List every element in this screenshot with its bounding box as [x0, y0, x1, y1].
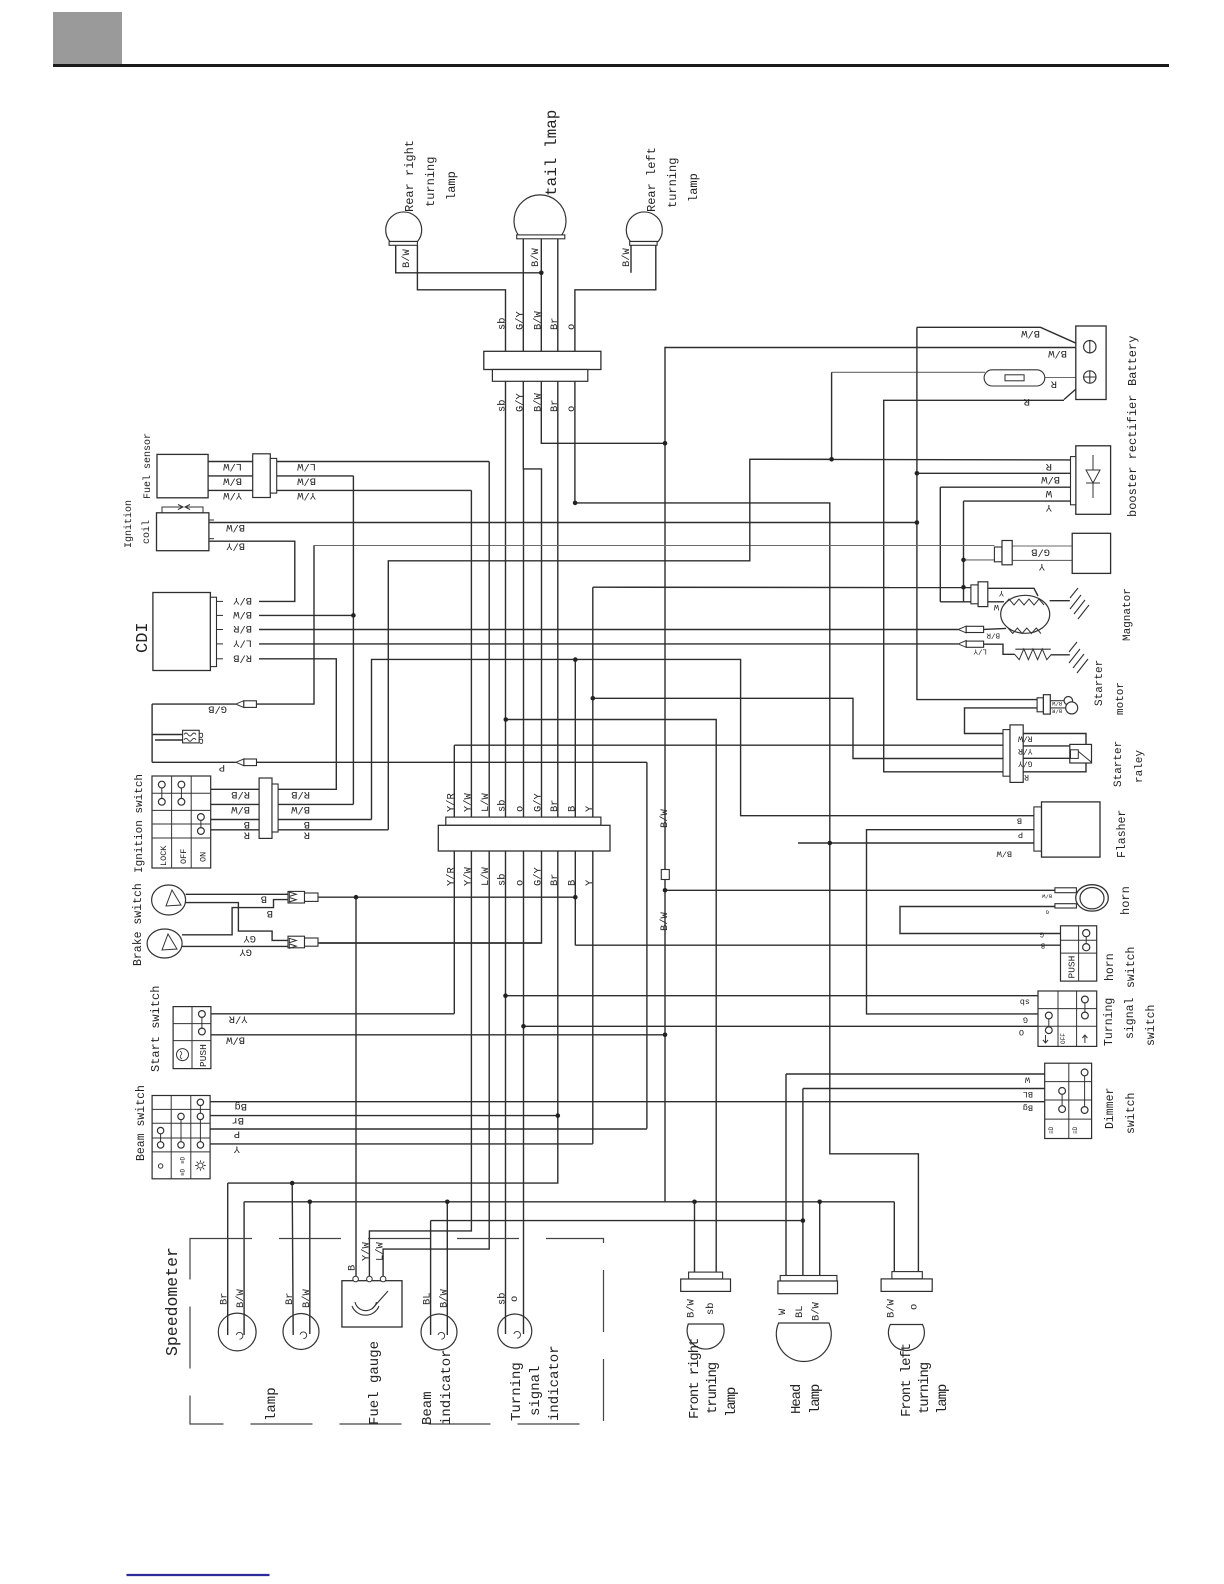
svg-text:lamp: lamp [724, 1387, 740, 1417]
junction B/W start [663, 1033, 668, 1038]
wire B/W long riser to starter motor [917, 327, 1037, 699]
wire G/Y relay [593, 698, 1003, 758]
junction B/W head lamp [817, 1200, 822, 1205]
fuel gauge box [342, 1281, 402, 1327]
wire B/W front right [694, 1202, 696, 1272]
dimmer link c1 [1061, 1094, 1063, 1105]
svg-text:coil: coil [141, 520, 153, 544]
svg-text:indicator: indicator [439, 1349, 455, 1425]
svg-text:G/B: G/B [1031, 546, 1050, 558]
CDI pin tick B/Y [217, 600, 224, 602]
starter relay coil [1071, 750, 1079, 759]
wire B/W horn [665, 889, 1056, 891]
ignition links [162, 788, 201, 828]
wire R/W relay to starter motor [965, 708, 1038, 734]
svg-text:Y/W: Y/W [462, 793, 474, 812]
svg-text:sb: sb [497, 1293, 509, 1305]
wire G/B to box [1012, 545, 1072, 547]
beam symbol sun circle [198, 1163, 203, 1168]
CDI pin tick L/Y [217, 643, 224, 645]
starter motor leads [1050, 701, 1065, 708]
starter motor body circle [1066, 702, 1078, 714]
svg-text:raley: raley [1134, 750, 1146, 783]
svg-text:R: R [1024, 395, 1030, 407]
svg-text:B/W: B/W [226, 1033, 245, 1045]
beam indicator lamp [421, 1314, 457, 1350]
turn switch contact r3c1 [1045, 1027, 1052, 1034]
starter relay connector big [1010, 725, 1023, 783]
svg-text:LOCK: LOCK [159, 845, 169, 866]
bullet B/R body [966, 626, 983, 632]
svg-text:Y: Y [999, 588, 1004, 598]
svg-text:G: G [1040, 930, 1044, 938]
bullet brake2 body [288, 936, 305, 948]
front left lamp top bar [892, 1272, 922, 1279]
beam contact r4c1 [157, 1142, 163, 1148]
svg-text:turning: turning [917, 1362, 933, 1414]
junction B/W lamp 2 [308, 1200, 313, 1205]
junction R fuse riser [829, 457, 834, 462]
rectifier diode symbol [1086, 455, 1100, 498]
svg-text:o: o [509, 1296, 521, 1302]
svg-text:B/W: B/W [532, 393, 544, 412]
wire R ignition right [278, 829, 388, 831]
svg-text:Y/W: Y/W [297, 489, 316, 501]
wire B fuel gauge riser [355, 897, 357, 1281]
svg-text:B: B [267, 907, 273, 919]
svg-text:Br: Br [549, 400, 561, 412]
junction G/Y relay on Y bus [591, 696, 596, 701]
wire R/B ignition [211, 788, 259, 790]
svg-text:Beam: Beam [420, 1391, 436, 1425]
svg-text:Fuel sensor: Fuel sensor [142, 433, 154, 499]
wire R relay right [1023, 763, 1086, 772]
svg-text:G/Y: G/Y [514, 393, 526, 412]
bullet brake2 arrows [289, 938, 296, 948]
wire tail Br down [557, 239, 559, 351]
svg-text:≡D: ≡D [180, 1168, 187, 1176]
svg-text:B/W: B/W [659, 809, 671, 828]
junction o branch [573, 501, 578, 506]
wire rear-left B/W [630, 245, 632, 272]
ground magnator [1070, 588, 1089, 619]
wire P left [152, 761, 236, 763]
junction o turning [521, 1024, 526, 1029]
svg-text:Brake switch: Brake switch [132, 883, 145, 966]
brake switch triangle 2 [162, 934, 177, 950]
beam symbol sun rays [195, 1160, 206, 1171]
svg-text:Bg: Bg [1023, 1102, 1033, 1112]
magnator coil zigzag bottom [1008, 628, 1041, 634]
magnator connector big [978, 582, 988, 607]
dimmer contact r3c2 [1081, 1107, 1088, 1114]
svg-text:W: W [993, 602, 999, 612]
rear left turning lamp bulb [626, 212, 662, 242]
svg-text:R/B: R/B [291, 788, 310, 800]
flasher box [1042, 802, 1101, 857]
junction Y magnator [961, 585, 966, 590]
wire L/W bus [383, 462, 489, 1282]
head lamp bulb [776, 1323, 831, 1362]
bullet G/B body [244, 701, 257, 708]
svg-text:OFF: OFF [179, 849, 189, 864]
bullet L/Y arrow [958, 641, 966, 648]
svg-text:lamp: lamp [687, 173, 701, 202]
svg-text:B/R: B/R [1051, 708, 1062, 715]
wire L/W fuel sensor [208, 461, 489, 463]
svg-text:o: o [566, 406, 578, 412]
CDI box [153, 593, 211, 671]
svg-text:B: B [261, 893, 267, 905]
header rule [53, 64, 1169, 67]
central connector top bar [446, 817, 601, 825]
svg-text:Dimmer: Dimmer [1104, 1088, 1117, 1129]
wire Y/R bus [453, 745, 455, 1014]
wire B/W flasher [798, 842, 1034, 844]
tail lamp base [517, 235, 565, 239]
wire B/W battery vertical x665 [664, 347, 666, 1202]
wire magnator pin2 W feed [940, 601, 971, 603]
CDI pin tick B/W [217, 614, 224, 616]
svg-text:BL: BL [1023, 1089, 1033, 1099]
speedometer lamp 2 filament [300, 1332, 307, 1339]
bullet G/B arrow [236, 701, 244, 708]
wire Br lamp 1 [227, 1183, 229, 1335]
battery terminal 1 bar [1089, 341, 1091, 353]
svg-text:horn: horn [1119, 886, 1133, 915]
wire BL riser to headlamp [802, 1089, 804, 1276]
turn switch link c3 [1084, 1003, 1086, 1012]
svg-text:indicator: indicator [547, 1345, 563, 1421]
svg-text:Y/R: Y/R [229, 1012, 248, 1024]
svg-text:o: o [515, 806, 527, 812]
wire brake2 top jog [182, 900, 288, 935]
bullet brake2 tip [305, 938, 319, 946]
start switch dividers [173, 1007, 211, 1069]
svg-text:o: o [908, 1304, 920, 1310]
coil B/W pin tick [209, 519, 214, 521]
wire B horn switch [575, 944, 1060, 946]
junction flasher B/W on o-line [828, 841, 833, 846]
svg-text:B/W: B/W [401, 249, 413, 268]
bullet L/Y body [966, 641, 983, 647]
fuse body [984, 370, 1045, 386]
svg-text:Y/W: Y/W [462, 867, 474, 886]
dimmer contact r3c1 [1059, 1106, 1066, 1113]
svg-text:Beam switch: Beam switch [135, 1085, 148, 1161]
svg-text:GY: GY [243, 932, 256, 944]
wire B/R to coil [984, 628, 1007, 629]
noise filter wire 2 [155, 739, 183, 741]
CDI pin tick B/R [217, 629, 224, 631]
wire W dimmer [786, 1073, 1045, 1075]
junction Br lamp 2 [290, 1181, 295, 1186]
starter motor brush circle [1064, 697, 1072, 705]
footer blue rule [127, 1574, 270, 1576]
wire Y beam [210, 1143, 593, 1145]
wire R battery diagonal down [1064, 382, 1084, 400]
wire G/Y jog and bus [320, 381, 542, 943]
svg-text:Y: Y [1045, 501, 1052, 513]
start kick squiggle [180, 1051, 182, 1059]
ignition connector tall [259, 778, 272, 838]
ignition coil box [157, 513, 209, 551]
wire B/W front left [893, 1202, 895, 1272]
svg-text:W: W [777, 1308, 789, 1315]
junction B/W lamps [539, 271, 544, 276]
svg-text:Y/R: Y/R [1018, 746, 1033, 755]
svg-text:B/W: B/W [1048, 347, 1067, 359]
svg-text:turning: turning [666, 158, 680, 208]
wire B/W head lamp [819, 1202, 821, 1276]
junction B/W horn [663, 888, 668, 893]
turning signal indicator lamp [498, 1314, 532, 1348]
horn switch dividers [1061, 926, 1097, 981]
svg-text:Y: Y [584, 805, 596, 812]
wire BL beam indicator line [431, 1220, 803, 1222]
svg-text:horn: horn [1104, 953, 1117, 981]
svg-text:P: P [219, 761, 225, 773]
svg-text:R/W: R/W [1018, 734, 1033, 743]
svg-text:B/W: B/W [223, 474, 242, 486]
svg-text:L/W: L/W [480, 793, 492, 812]
noise filter squiggle 1 [184, 733, 196, 736]
bullet brake1 body [288, 891, 305, 903]
bullet brake1 tip [305, 893, 319, 901]
horn switch contact 1 [1083, 930, 1090, 937]
svg-text:sb: sb [1020, 997, 1030, 1007]
front right lamp top bar [689, 1272, 723, 1279]
svg-text:Rear left: Rear left [645, 147, 659, 212]
battery box [1076, 326, 1106, 400]
svg-text:Bg: Bg [235, 1100, 247, 1112]
turning signal indicator lamp filament [514, 1331, 521, 1338]
horn inner ring [1080, 888, 1104, 909]
ground pickup [1069, 642, 1088, 673]
beam contact r4c2 [178, 1142, 184, 1148]
wire Y/R start [211, 1013, 454, 1015]
wire Y/W bus [369, 490, 471, 1281]
svg-text:B/W: B/W [1041, 473, 1060, 485]
horn switch link [1085, 937, 1087, 944]
fuse element [1005, 375, 1024, 381]
wire Br lamp 2 [292, 1183, 293, 1335]
dimmer contact r1c2 [1081, 1069, 1088, 1076]
svg-text:B/W: B/W [530, 248, 542, 267]
svg-text:Y/W: Y/W [223, 489, 242, 501]
wire Y rectifier [964, 500, 1071, 502]
svg-text:B/R: B/R [233, 622, 252, 634]
svg-text:≡D: ≡D [1072, 1126, 1079, 1134]
turn switch right arrow [1082, 1035, 1087, 1043]
turn switch contact r2c3 [1082, 1012, 1089, 1019]
wire R fuse left riser [831, 372, 833, 459]
front right lamp bulb [687, 1324, 724, 1349]
start switch grid [173, 1007, 211, 1069]
wire B/W ignition [211, 803, 259, 805]
wire R to starter relay [884, 400, 1064, 772]
svg-text:switch: switch [1145, 1005, 1158, 1046]
wire G/B long [314, 545, 994, 547]
svg-text:lamp: lamp [935, 1384, 951, 1414]
svg-text:G/Y: G/Y [1018, 759, 1033, 768]
svg-text:Y/R: Y/R [445, 867, 457, 886]
wire BL beam indicator drop [430, 1221, 432, 1335]
svg-text:B/W: B/W [226, 521, 245, 533]
starter relay connector small [1003, 730, 1010, 777]
svg-text:R: R [244, 828, 250, 840]
junction B/W front right [692, 1200, 697, 1205]
svg-text:B/W: B/W [532, 311, 544, 330]
svg-text:Turning: Turning [1103, 998, 1116, 1046]
bullet brake1 arrows [289, 892, 296, 902]
wire B ignition to flasher [372, 659, 1034, 819]
head lamp connector bar [778, 1281, 838, 1294]
beam switch dividers [152, 1096, 210, 1179]
wire Bg beam to dimmer [210, 1101, 1045, 1103]
ignition contact b2 [178, 798, 185, 805]
junction coil B/W riser [915, 520, 920, 525]
wire B/W ignition coil [209, 522, 917, 524]
wire R fuse to battery [1044, 377, 1083, 379]
head lamp top bar [780, 1276, 837, 1282]
wire P flasher to turn switch [867, 830, 1039, 1014]
brake switch triangle 1 [166, 890, 181, 906]
turn switch dividers [1038, 991, 1097, 1046]
beam contact r4c3 [197, 1142, 203, 1148]
svg-text:B/W: B/W [301, 1289, 313, 1308]
svg-text:GY: GY [239, 946, 252, 958]
wire sb bus [505, 381, 507, 1334]
svg-text:B/W: B/W [1041, 893, 1052, 900]
dimmer switch grid [1045, 1063, 1092, 1138]
svg-text:L/Y: L/Y [973, 647, 987, 655]
wire tail B/W down + branch to battery line [541, 239, 665, 443]
CDI pin tick R/B [217, 658, 224, 660]
svg-text:B/W: B/W [621, 248, 633, 267]
fuel gauge dial arc [352, 1302, 379, 1315]
svg-text:sb: sb [497, 400, 509, 412]
magnator coil zigzag top [1004, 599, 1044, 605]
wire brake2 lower GY [182, 945, 289, 947]
ignition switch dividers [152, 776, 211, 868]
svg-text:Front left: Front left [899, 1344, 915, 1417]
svg-text:B/W: B/W [231, 803, 250, 815]
svg-text:B/Y: B/Y [233, 594, 252, 606]
svg-text:Y/R: Y/R [445, 793, 457, 812]
brake switch circle 1 [152, 885, 186, 915]
wire pickup to ground [1051, 654, 1070, 656]
wire G/B left [152, 703, 236, 705]
svg-text:truning: truning [705, 1362, 721, 1414]
wire B brake to bus [318, 896, 575, 898]
wire L/Y to pickup coil [984, 644, 1015, 654]
speedometer lamp 1 filament [236, 1332, 243, 1339]
central connector main bar [438, 825, 610, 851]
svg-text:B/W: B/W [235, 1289, 247, 1308]
svg-text:sb: sb [497, 318, 509, 330]
svg-text:B/W: B/W [996, 849, 1012, 859]
beam symbol off dot [158, 1164, 162, 1168]
brake switch circle 2 [147, 929, 182, 958]
connector on B/W vertical [661, 870, 669, 880]
svg-text:Ignition switch: Ignition switch [134, 774, 146, 873]
svg-text:PUSH: PUSH [198, 1044, 209, 1067]
junction Br beam [556, 1113, 561, 1118]
wire B/W start [211, 1034, 665, 1036]
fuel sensor connector tall [253, 454, 271, 498]
svg-text:B: B [566, 880, 578, 886]
svg-text:CDI: CDI [134, 622, 153, 653]
wire B/W battery horizontal [665, 347, 1083, 349]
svg-text:Br: Br [284, 1293, 296, 1305]
wire BL dimmer [803, 1088, 1045, 1090]
booster rectifier pin bar [1071, 457, 1076, 505]
wire B ignition right [278, 819, 371, 821]
wire B/W CDI [259, 614, 353, 616]
wire sb branch to front-right lamp [506, 720, 716, 1273]
starter motor connector big [1043, 695, 1050, 714]
svg-text:Starter: Starter [1094, 660, 1106, 706]
bullet B/R arrow [958, 626, 966, 633]
svg-text:motor: motor [1115, 682, 1127, 715]
turn switch link c1 [1048, 1019, 1050, 1027]
wire magnator coil to ground [1050, 600, 1070, 602]
svg-text:G/Y: G/Y [514, 311, 526, 330]
svg-text:Br: Br [549, 318, 561, 330]
svg-text:lamp: lamp [808, 1384, 824, 1414]
horn switch grid [1061, 926, 1097, 981]
wire R/B CDI [259, 659, 336, 790]
svg-text:R/B: R/B [231, 788, 250, 800]
wire B/W battery top diagonal [917, 327, 1083, 346]
wire R riser to rectifier line [388, 459, 831, 830]
svg-text:Fuel gauge: Fuel gauge [367, 1341, 383, 1425]
tail lamp connector lower bar [492, 370, 587, 382]
svg-text:B/W: B/W [297, 474, 316, 486]
dimmer contact r2c1 [1059, 1088, 1066, 1095]
svg-text:B: B [1017, 816, 1022, 826]
pickup coil overbar [1015, 648, 1050, 650]
horn outer ring [1076, 885, 1109, 911]
front left lamp connector bar [881, 1279, 932, 1292]
wire P to beam riser [257, 761, 647, 763]
wire P beam [210, 1128, 647, 1130]
rear left lamp base [630, 242, 657, 246]
bullet P body [244, 759, 257, 766]
fuel gauge pin Y/W [367, 1276, 373, 1282]
svg-text:G/B: G/B [208, 703, 227, 715]
wire B/W lamp run [244, 1201, 894, 1203]
wire R/W relay right [1023, 734, 1086, 745]
speedometer lamp 2 [283, 1314, 319, 1350]
wire o tail to junction [574, 381, 576, 503]
junction B brake bus [573, 895, 578, 900]
ignition coil top symbol [162, 505, 203, 513]
CDI pin strip [210, 597, 216, 666]
svg-text:Br: Br [549, 874, 561, 886]
svg-text:G: G [1023, 1015, 1028, 1025]
fuel gauge pin L/W [380, 1276, 386, 1282]
dimmer link c2 [1084, 1076, 1086, 1107]
svg-text:booster rectifier: booster rectifier [1126, 395, 1140, 517]
dimmer dividers [1045, 1063, 1092, 1138]
svg-text:Y: Y [233, 1142, 240, 1154]
junction sb turning [503, 993, 508, 998]
bullet P arrow [236, 759, 244, 766]
svg-text:Rear right: Rear right [403, 140, 417, 212]
svg-text:B/W: B/W [438, 1289, 450, 1308]
